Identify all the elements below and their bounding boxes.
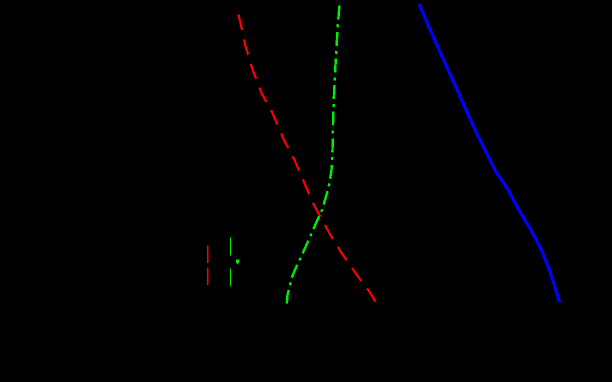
red dashed curve (left profile) (239, 15, 376, 302)
green triangle-down legend marker (236, 259, 240, 264)
blue solid curve (rightmost profile) (419, 4, 559, 302)
red dashed vertical legend sample line (207, 246, 209, 286)
green dash-dot vertical legend sample line (230, 238, 232, 287)
green dash-dot curve (middle profile) (287, 6, 340, 305)
